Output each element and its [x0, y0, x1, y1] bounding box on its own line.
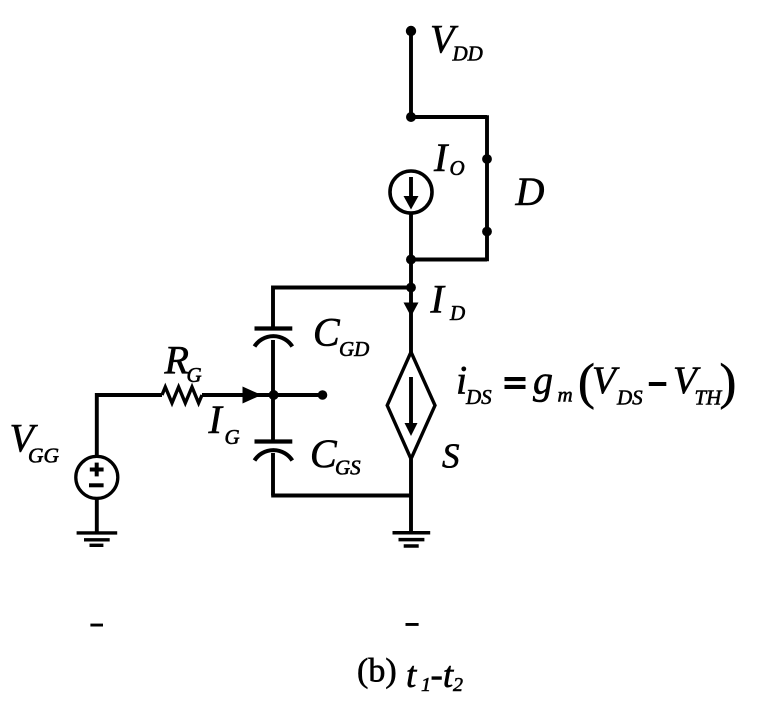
svg-text:-t: -t [431, 655, 455, 696]
svg-text:g: g [533, 358, 553, 403]
label R_G [164, 338, 202, 388]
wire gate stub to terminal [274, 393, 320, 397]
svg-text:m: m [558, 383, 573, 407]
svg-text:DD: DD [452, 42, 483, 66]
wire IO to drain junction [409, 213, 413, 260]
dependent current source i_DS (diamond) [387, 352, 435, 459]
wire D-loop bottom [411, 258, 487, 262]
junction drain-loop bottom [406, 255, 416, 265]
svg-text:I: I [433, 135, 449, 180]
svg-text:D: D [515, 169, 545, 214]
svg-text:GG: GG [28, 444, 60, 468]
svg-text:C: C [313, 310, 341, 355]
svg-text:2: 2 [453, 674, 463, 696]
wire gate node to C_GS [271, 395, 275, 441]
wire C_GD bottom plate to gate node [271, 340, 275, 395]
node G terminal [318, 390, 328, 400]
capacitor C_GD [255, 329, 293, 347]
junction gate node [269, 390, 279, 400]
svg-text:t: t [406, 655, 418, 696]
svg-text:O: O [450, 156, 465, 180]
svg-text:GD: GD [339, 337, 369, 361]
svg-text:G: G [225, 425, 240, 449]
current arrow I_G [243, 387, 262, 404]
wire drain junction to gate-drain node [409, 260, 413, 288]
svg-text:G: G [187, 363, 202, 387]
svg-text:I: I [430, 277, 446, 322]
wire C_GS to source bottom wire [271, 453, 275, 496]
svg-text:1: 1 [421, 674, 431, 696]
wire drain node to diamond top [409, 288, 413, 354]
node D lower terminal [482, 227, 492, 237]
label I_O [433, 135, 465, 180]
svg-text:C: C [310, 431, 338, 476]
wire diamond bottom to ground [409, 459, 413, 533]
label I_D [430, 277, 466, 326]
junction drain / C_GD [406, 283, 416, 293]
svg-text:(b): (b) [357, 653, 397, 690]
node D upper terminal [482, 154, 492, 164]
resistor R_G [162, 387, 202, 403]
svg-text:GS: GS [335, 456, 361, 480]
svg-text:D: D [449, 301, 465, 325]
ground at VGG [77, 533, 118, 545]
label I_G [208, 397, 240, 449]
wire D-loop right [485, 115, 489, 261]
svg-text:V: V [592, 359, 620, 402]
caption (b) t1-t2 [357, 653, 463, 697]
label S [442, 437, 460, 476]
svg-text:R: R [164, 338, 189, 383]
wire VDD down to D-loop top [409, 31, 413, 117]
node VDD [406, 26, 416, 36]
svg-text:I: I [208, 397, 224, 442]
label C_GS [310, 431, 361, 480]
equation i_DS = g_m ( V_DS - V_TH ) [456, 354, 736, 410]
label D [515, 169, 545, 214]
minus marker below source ground [406, 623, 419, 626]
svg-text:S: S [442, 437, 460, 476]
wire resistor to gate junction [202, 393, 274, 397]
current arrow I_D [404, 303, 419, 317]
wire source bottom horizontal [271, 494, 411, 498]
junction drain-loop top [406, 112, 416, 122]
capacitor C_GS [255, 442, 293, 461]
label V_DD [430, 17, 483, 66]
wire gate top: C_GD to drain node [273, 288, 411, 329]
wire D-loop top [411, 115, 487, 119]
wire VGG top to resistor [97, 395, 162, 457]
svg-text:DS: DS [616, 386, 643, 410]
wire VGG bottom to ground [95, 498, 99, 533]
svg-text:DS: DS [465, 385, 492, 409]
label C_GD [313, 310, 369, 362]
minus marker below VGG ground [90, 624, 103, 627]
current source I_O [390, 171, 432, 213]
svg-text:): ) [720, 354, 737, 410]
voltage source V_GG [76, 456, 118, 498]
ground at source [393, 533, 431, 546]
label V_GG [10, 416, 60, 468]
